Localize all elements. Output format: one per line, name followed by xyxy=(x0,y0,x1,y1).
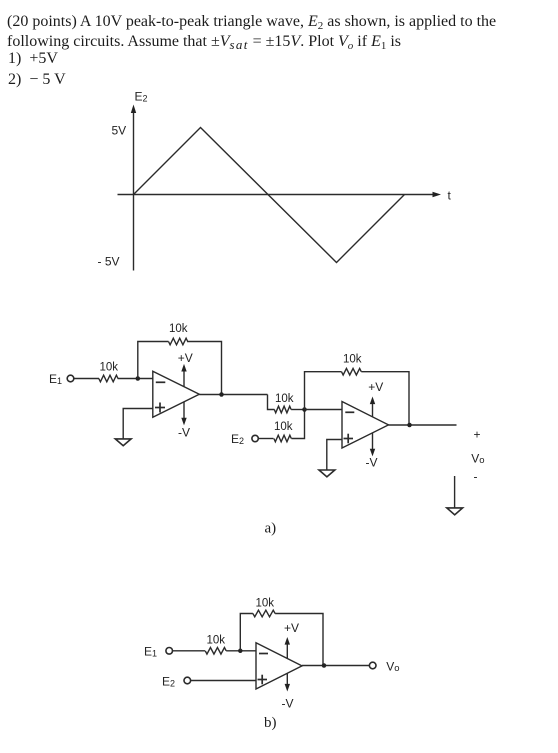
node label E1 xyxy=(49,372,62,386)
label + polarity of Vo xyxy=(474,428,481,442)
problem statement line 1 xyxy=(7,13,496,31)
wire R6 to U3 inverting input xyxy=(226,650,256,652)
junction summing node of U2 xyxy=(302,407,307,412)
ground at U1 non-inverting input xyxy=(115,439,131,446)
wire U3 feedback up from node xyxy=(240,614,253,651)
svg-text:10k: 10k xyxy=(275,393,294,405)
vertical axis (E2 axis) xyxy=(131,105,136,271)
label R2 value 10k xyxy=(169,323,188,335)
svg-text:+V: +V xyxy=(368,380,383,394)
input terminal E1 xyxy=(67,375,74,382)
svg-text:10k: 10k xyxy=(207,635,226,647)
node label E2 (circuit a) xyxy=(231,432,244,446)
ground at U2 non-inverting input xyxy=(319,470,335,477)
wire R2 feedback to U1 output xyxy=(187,342,221,395)
op-amp U3 xyxy=(256,643,302,689)
junction node at U3 output xyxy=(322,663,327,668)
wire E1 terminal to R1 xyxy=(74,378,99,380)
wire U2 non-inverting input to ground xyxy=(327,440,342,470)
problem statement line 2 xyxy=(7,33,401,51)
list item 1) +5V xyxy=(8,50,58,68)
caption a) xyxy=(265,521,277,537)
label R1 value 10k xyxy=(100,362,119,374)
supply line +V / -V of U3 xyxy=(285,637,290,692)
svg-text:a): a) xyxy=(265,521,277,537)
wire U2 output xyxy=(389,424,457,426)
wire R1 to U1 inverting input xyxy=(118,378,153,380)
label +V of U1 xyxy=(178,351,193,365)
svg-text:-V: -V xyxy=(366,456,378,470)
caption b) xyxy=(264,715,277,731)
label Vo (circuit b) xyxy=(386,660,399,675)
svg-text:E1: E1 xyxy=(49,372,62,386)
svg-text:+: + xyxy=(474,428,481,442)
svg-text:Vo: Vo xyxy=(386,660,399,675)
junction node at U2 output xyxy=(407,423,412,428)
svg-text:10k: 10k xyxy=(256,598,275,610)
wire R3 to summing node xyxy=(291,409,304,411)
label -V of U3 xyxy=(282,697,294,711)
svg-text:10k: 10k xyxy=(343,354,362,366)
input terminal E1 (circuit b) xyxy=(166,648,173,655)
svg-text:-: - xyxy=(474,470,478,484)
horizontal axis (t axis) xyxy=(118,192,442,197)
supply line +V / -V of U2 xyxy=(370,397,375,457)
wire E2 terminal to U3 non-inverting input xyxy=(191,680,256,682)
ground at Vo reference xyxy=(447,508,463,515)
label R7 value 10k xyxy=(256,598,275,610)
svg-text:b): b) xyxy=(264,715,277,731)
svg-text:5V: 5V xyxy=(112,124,127,138)
junction node at U1 inverting input xyxy=(136,376,141,381)
resistor R5 10k (feedback U2) xyxy=(342,368,362,375)
svg-text:-V: -V xyxy=(282,697,294,711)
op-amp U1 xyxy=(153,371,200,417)
output terminal Vo (circuit b) xyxy=(369,662,376,669)
label -V of U2 xyxy=(366,456,378,470)
wire U1 non-inverting input to ground xyxy=(123,409,153,439)
svg-text:- 5V: - 5V xyxy=(98,255,120,269)
wire R4 up to summing node xyxy=(291,410,304,439)
resistor R1 10k xyxy=(99,375,118,382)
label R5 value 10k xyxy=(343,354,362,366)
supply line +V / -V of U1 xyxy=(181,364,186,426)
resistor R3 10k xyxy=(274,406,291,413)
E2 axis label xyxy=(135,90,148,104)
svg-text:Vo: Vo xyxy=(471,452,484,467)
input terminal E2 (circuit b) xyxy=(184,677,191,684)
wire U1 output down to R3 xyxy=(268,395,275,410)
svg-text:E2: E2 xyxy=(135,90,148,104)
node label E2 (circuit b) xyxy=(162,675,175,689)
svg-text:+V: +V xyxy=(284,621,299,635)
label - polarity of Vo xyxy=(474,470,478,484)
svg-text:E2: E2 xyxy=(231,432,244,446)
node label E1 (circuit b) xyxy=(144,645,157,659)
svg-text:E2: E2 xyxy=(162,675,175,689)
-5V label xyxy=(98,255,120,269)
label +V of U3 xyxy=(284,621,299,635)
label R6 value 10k xyxy=(207,635,226,647)
label +V of U2 xyxy=(368,380,383,394)
triangle waveform E2 xyxy=(134,128,405,263)
label R3 value 10k xyxy=(275,393,294,405)
junction node at U1 output xyxy=(219,392,224,397)
wire U1 feedback up from node xyxy=(138,342,169,379)
wire R5 feedback to U2 output xyxy=(361,372,409,425)
svg-text:10k: 10k xyxy=(100,362,119,374)
svg-text:10k: 10k xyxy=(169,323,188,335)
resistor R7 10k (feedback U3) xyxy=(253,610,275,617)
svg-text:E1: E1 xyxy=(144,645,157,659)
resistor R4 10k xyxy=(274,435,291,442)
svg-text:-V: -V xyxy=(178,426,190,440)
resistor R6 10k xyxy=(205,648,226,655)
wire U1 output xyxy=(199,394,267,396)
svg-text:t: t xyxy=(448,189,452,203)
input terminal E2 (circuit a) xyxy=(252,435,258,441)
op-amp U2 xyxy=(342,402,389,449)
svg-text:+V: +V xyxy=(178,351,193,365)
wire U2 feedback up from summing node xyxy=(305,372,342,410)
wire R7 feedback to U3 output xyxy=(275,614,323,666)
junction node at U3 inverting input xyxy=(238,649,243,654)
ground lead at Vo reference xyxy=(454,476,456,508)
wire summing node to U2 inverting input xyxy=(305,409,343,411)
t axis label xyxy=(448,189,452,203)
svg-text:10k: 10k xyxy=(274,421,293,433)
wire E1 terminal to R6 xyxy=(173,650,206,652)
label -V of U1 xyxy=(178,426,190,440)
list item 2) -5V xyxy=(8,71,66,89)
5V label xyxy=(112,124,127,138)
resistor R2 10k (feedback U1) xyxy=(169,338,188,345)
label R4 value 10k xyxy=(274,421,293,433)
label Vo (circuit a) xyxy=(471,452,484,467)
wire E2 terminal to R4 xyxy=(258,438,273,440)
wire U3 output xyxy=(302,665,369,667)
